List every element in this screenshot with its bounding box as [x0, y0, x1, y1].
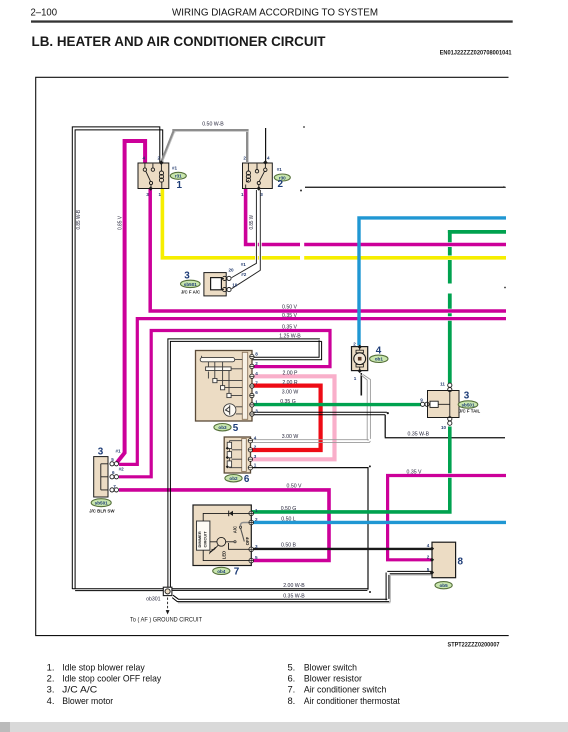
svg-text:0.50 L: 0.50 L [281, 517, 296, 523]
svg-text:ob3: ob3 [218, 425, 227, 430]
svg-text:J/C A/C: J/C A/C [62, 684, 97, 695]
svg-text:2.: 2. [47, 673, 55, 684]
svg-text:3.: 3. [47, 684, 55, 695]
svg-text:0.35 G: 0.35 G [280, 399, 296, 405]
svg-text:4: 4 [254, 435, 257, 440]
svg-text:9: 9 [420, 397, 423, 402]
svg-text:2: 2 [278, 179, 284, 190]
svg-text:10: 10 [441, 425, 447, 430]
svg-text:8: 8 [458, 557, 464, 568]
svg-text:Blower switch: Blower switch [304, 661, 357, 672]
svg-text:r31: r31 [175, 174, 182, 179]
junction dot 0.35WB corner [369, 465, 371, 467]
svg-text:5: 5 [111, 457, 114, 462]
J/C F TAIL oval sb501 [458, 401, 478, 408]
svg-text:ob2: ob2 [229, 476, 238, 481]
svg-text:6: 6 [255, 390, 258, 395]
wire: white comp5 pin3 right to junction (double) [252, 412, 387, 415]
wire: black stub to relay2 pin4 [265, 128, 267, 163]
svg-text:0.50 W-B: 0.50 W-B [202, 122, 224, 128]
svg-text:OFF: OFF [245, 536, 250, 545]
svg-text:2: 2 [158, 156, 161, 161]
svg-text:J/C F A/C: J/C F A/C [181, 289, 201, 294]
svg-text:6: 6 [244, 474, 250, 485]
svg-text:0.35 V: 0.35 V [407, 469, 423, 475]
svg-text:7: 7 [234, 567, 240, 578]
wire: green corner to J/C F TAIL pin11 (with crossing gaps) [450, 230, 506, 383]
svg-text:1: 1 [354, 376, 357, 381]
blower resistor oval ob2 [225, 475, 242, 482]
wire: W-B frame loop from relay1 pin2 left and down to ground (0.85 W-B, double line) [72, 127, 163, 591]
svg-text:0.35 V: 0.35 V [282, 313, 298, 319]
relay R2 oval r30 [274, 174, 290, 181]
ground dashed arrow [167, 598, 169, 611]
svg-text:7.: 7. [287, 684, 295, 695]
svg-text:sb501: sb501 [184, 282, 197, 287]
svg-text:0.85 W: 0.85 W [249, 215, 255, 230]
svg-text:Idle stop blower relay: Idle stop blower relay [62, 661, 145, 672]
svg-text:4: 4 [255, 371, 258, 376]
svg-text:LB. HEATER AND AIR CONDITIONER: LB. HEATER AND AIR CONDITIONER CIRCUIT [32, 34, 327, 49]
svg-text:1.25 W-B: 1.25 W-B [279, 334, 301, 340]
svg-text:#1: #1 [277, 167, 283, 172]
wire: white 1.25 W-B comp5 pin8 right-up-left-down to ground (double) [168, 339, 322, 587]
blower resistor (6) [224, 437, 252, 473]
svg-text:2.00 P: 2.00 P [283, 371, 299, 377]
svg-text:WIRING DIAGRAM ACCORDING TO SY: WIRING DIAGRAM ACCORDING TO SYSTEM [172, 7, 378, 18]
svg-text:11: 11 [440, 381, 445, 386]
wire: white 2.00 W-B ground to junction with 0.35WB (double) [172, 589, 368, 591]
svg-text:A/C: A/C [232, 526, 237, 533]
svg-text:8: 8 [255, 351, 258, 356]
blower motor (4) [352, 345, 368, 374]
svg-text:#1: #1 [172, 165, 178, 170]
svg-text:1.: 1. [47, 661, 55, 672]
J/C A/C oval sb501 [181, 280, 201, 287]
svg-text:3: 3 [255, 544, 258, 549]
wire: gray 0.50 W-B relay1 pin2 to relay2 pin2 [162, 130, 249, 162]
svg-text:3: 3 [255, 409, 258, 414]
J/C BLR SW oval sb501 [91, 499, 111, 507]
svg-text:0.85 V: 0.85 V [118, 215, 124, 230]
svg-text:ob5: ob5 [440, 583, 449, 588]
svg-text:0.50 V: 0.50 V [287, 484, 303, 490]
wire: green 0.35 G comp5 pin1 to J/C F TAIL pin9 [252, 403, 421, 406]
svg-text:6: 6 [112, 470, 115, 475]
svg-text:4: 4 [427, 543, 430, 548]
svg-text:sb501: sb501 [95, 501, 108, 506]
svg-text:ob1: ob1 [375, 357, 384, 362]
air conditioner switch (7) [193, 505, 254, 566]
svg-text:5: 5 [427, 567, 430, 572]
svg-text:STPT22ZZZ0200007: STPT22ZZZ0200007 [448, 643, 501, 649]
svg-text:3: 3 [464, 391, 470, 402]
svg-text:4: 4 [143, 156, 146, 161]
svg-text:0.35 W-B: 0.35 W-B [408, 432, 430, 438]
svg-text:1: 1 [241, 192, 244, 197]
wire: magenta 0.50 V relay1 pin3 down then right to x506 [150, 189, 506, 311]
svg-text:sb501: sb501 [461, 402, 474, 407]
svg-text:6.: 6. [287, 673, 295, 684]
svg-text:5: 5 [255, 555, 258, 560]
svg-text:7: 7 [113, 484, 116, 489]
svg-text:8.: 8. [287, 695, 295, 706]
J/C BLR SW (3) [94, 457, 119, 497]
svg-text:2: 2 [255, 361, 258, 366]
svg-text:3: 3 [146, 192, 149, 197]
svg-text:LED: LED [222, 551, 227, 559]
wire: blue 0.50 L corner to blower motor pin2 [359, 218, 506, 346]
wire: black 0.35 W-B down then right to x505 [385, 415, 505, 438]
svg-text:#1: #1 [115, 449, 121, 454]
svg-text:0.50 G: 0.50 G [281, 506, 297, 512]
legend rule bottom [0, 722, 568, 732]
thermostat oval ob5 [435, 582, 452, 589]
svg-text:Air conditioner thermostat: Air conditioner thermostat [304, 695, 400, 706]
wire: black 0.35 W-B thin top right (y187) [305, 186, 506, 188]
svg-text:5: 5 [233, 423, 239, 434]
svg-text:5.: 5. [287, 661, 295, 672]
wire: white pair 0.85 W relay2 pin3 down to J/C A/C pins (over yellow/magenta) [253, 190, 260, 274]
wire: green 0.50 G A/C switch pin1 right and up to J/C F TAIL pin10 (gap at magenta crossing) [252, 427, 450, 512]
svg-text:2: 2 [254, 445, 257, 450]
wire: magenta 0.35 V from right edge down to thermostat pin2 [388, 476, 506, 560]
svg-text:4.: 4. [47, 695, 55, 706]
wire: magenta 0.35 V U-path comp5 pin2 to J/C BLR SW pin6 [119, 331, 330, 477]
svg-text:2.00 R: 2.00 R [282, 380, 298, 386]
junction dot at 1.25WB/0.35WB split [387, 412, 389, 414]
blower switch oval ob3 [214, 424, 231, 431]
J/C F TAIL (3) [421, 383, 460, 425]
relay R1: idle stop blower relay (1) [138, 160, 169, 190]
A/C switch oval ob4 [213, 567, 230, 574]
wire: magenta 0.85 V relay1 pin4 up-left-down to J/C BLR SW pin5 [117, 141, 145, 462]
svg-text:1: 1 [254, 462, 257, 467]
wire: pink 2.00 P comp5 pin4 to resistor pin3 [251, 376, 335, 459]
stray print dots [303, 126, 305, 128]
svg-text:#2: #2 [241, 272, 247, 277]
svg-text:2.00 W-B: 2.00 W-B [283, 583, 305, 589]
svg-text:0.50 V: 0.50 V [282, 304, 298, 310]
svg-text:1: 1 [177, 180, 183, 191]
svg-text:3.00 W: 3.00 W [282, 434, 299, 440]
wire: white 0.35 W-B thermostat pin5 to ground (double with gray shadow) [172, 571, 432, 602]
svg-text:CIRCUIT: CIRCUIT [203, 531, 208, 548]
svg-text:2: 2 [353, 341, 356, 346]
svg-text:To ( AF ) GROUND CIRCUIT: To ( AF ) GROUND CIRCUIT [130, 616, 202, 623]
svg-text:4: 4 [267, 156, 270, 161]
svg-text:1: 1 [255, 400, 258, 405]
svg-text:Idle stop cooler OFF relay: Idle stop cooler OFF relay [62, 673, 161, 684]
svg-text:0.35 W-B: 0.35 W-B [283, 593, 305, 599]
relay R2: idle stop cooler OFF relay (2) [243, 160, 273, 191]
svg-text:2: 2 [243, 156, 246, 161]
J/C A/C (3) [204, 273, 231, 296]
svg-text:DIMMER: DIMMER [197, 531, 202, 547]
wire: red 2.00 R comp5 pin7 to resistor pin2 [251, 386, 321, 450]
wire: blue 0.50 L A/C switch pin2 right to x506 [252, 521, 507, 524]
blower switch (5) [196, 351, 255, 422]
svg-text:3.00 W: 3.00 W [282, 390, 299, 396]
svg-text:ob301: ob301 [146, 597, 161, 603]
svg-text:J/C BLR SW: J/C BLR SW [89, 508, 115, 513]
svg-text:1: 1 [255, 508, 258, 513]
svg-text:20: 20 [228, 268, 234, 273]
header rule [31, 20, 513, 22]
svg-text:J/C F TAIL: J/C F TAIL [459, 409, 481, 414]
svg-text:ob4: ob4 [217, 569, 226, 574]
svg-text:2–100: 2–100 [31, 7, 58, 18]
svg-text:#2: #2 [119, 467, 125, 472]
wire: black 0.50 B A/C switch pin3 to thermostat pin4 [252, 548, 432, 550]
svg-text:1: 1 [159, 192, 162, 197]
wire: black stub below motor pin1 (3.00 W invisible run) [360, 373, 362, 396]
svg-text:Air conditioner switch: Air conditioner switch [304, 684, 387, 695]
diagram frame [36, 77, 509, 635]
wire: gray 3.00 W motor pin1 to resistor pin4 (double gray) [251, 375, 371, 443]
svg-text:2: 2 [427, 554, 430, 559]
junction dot at ground wire [369, 591, 371, 593]
svg-text:Blower motor: Blower motor [62, 695, 113, 706]
svg-text:EN01J22ZZZ020708001041: EN01J22ZZZ020708001041 [440, 50, 513, 56]
svg-text:2: 2 [255, 517, 258, 522]
blower motor oval ob1 [370, 355, 388, 362]
wire: black 0.35 W-B comp6 pin1 right then down to ground junction [251, 468, 368, 590]
svg-text:3: 3 [254, 454, 257, 459]
svg-text:0.35 V: 0.35 V [282, 324, 298, 330]
relay R1 oval r31 [170, 172, 186, 179]
svg-text:#1: #1 [241, 262, 247, 267]
wire: yellow from relay1 pin1 down then right (gap at x300-304) [162, 189, 506, 258]
svg-text:19: 19 [232, 283, 238, 288]
air conditioner thermostat (8) [430, 542, 456, 578]
svg-text:Blower resistor: Blower resistor [304, 673, 362, 684]
svg-text:7: 7 [255, 381, 258, 386]
svg-text:3: 3 [98, 447, 104, 458]
wire: magenta 0.50 V J/C BLR SW pin7 to A/C switch pin5 [119, 490, 329, 561]
wire: magenta 0.50 V from relay2 pin1 right (gap at invisible crossing x300-304) [246, 189, 506, 245]
svg-text:3: 3 [260, 192, 263, 197]
ground connector ob301 [163, 587, 172, 595]
svg-text:0.50 B: 0.50 B [281, 543, 297, 549]
wire: magenta 0.35 V right segment to J/C BLR SW pin5 [119, 319, 506, 465]
svg-text:0.85 W-B: 0.85 W-B [76, 210, 82, 230]
